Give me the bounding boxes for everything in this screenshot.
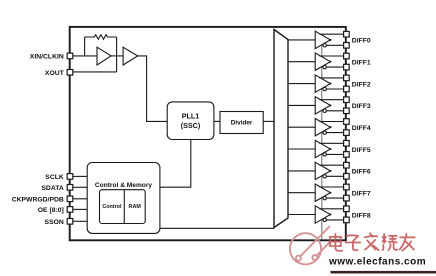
wire mux to buffer 1 [288, 61, 315, 63]
wire DIFF6 complement output [326, 175, 343, 177]
svg-text:DIFF3: DIFF3 [352, 103, 371, 110]
wire Control block to distribution buffer [160, 227, 274, 229]
pin SDATA [67, 185, 73, 191]
junction dot DIFF0 [329, 39, 331, 41]
output buffer U7 DIFF1 [315, 53, 330, 70]
wire SCLK [73, 175, 87, 177]
output buffer U9 DIFF3 [315, 97, 330, 114]
wire CKPWRGD/PDB [73, 198, 87, 200]
wire DIFF7 true output [319, 186, 343, 188]
wire Divider to distribution buffer [263, 120, 274, 122]
wire DIFF0 complement output [326, 44, 343, 46]
junction dot DIFF1 [329, 61, 331, 63]
pin DIFF0 complement [344, 43, 350, 49]
wire mux to buffer 3 [288, 104, 315, 106]
wire mux to buffer 7 [288, 192, 315, 194]
output buffer U11 DIFF5 [315, 140, 330, 157]
junction dot DIFF6 [329, 170, 331, 172]
svg-text:www.elecfans.com: www.elecfans.com [328, 256, 426, 267]
inversion bubble DIFF8 [323, 218, 326, 221]
wire DIFF8 complement output [326, 219, 343, 221]
chip outline [70, 27, 346, 240]
inversion bubble DIFF4 [323, 131, 326, 134]
control/RAM sub-blocks [100, 190, 146, 224]
wire DIFF6 true output [319, 164, 343, 166]
wire mux to buffer 0 [288, 39, 315, 41]
wire OE [8:0] [73, 208, 87, 210]
watermark logo disc [290, 227, 331, 265]
pin DIFF4 complement [344, 130, 350, 136]
pin DIFF1 complement [344, 64, 350, 70]
inversion bubble DIFF6 [323, 175, 326, 178]
svg-text:OE [8:0]: OE [8:0] [38, 207, 64, 214]
inversion bubble DIFF1 [323, 65, 326, 68]
wire SSON [73, 220, 87, 222]
inversion bubble DIFF2 [323, 87, 326, 90]
junction dot DIFF8 [329, 213, 331, 215]
svg-text:DIFF1: DIFF1 [352, 60, 371, 67]
wire SDATA [73, 186, 87, 188]
inversion bubble DIFF3 [323, 109, 326, 112]
wire DIFF5 complement output [326, 153, 343, 155]
svg-text:XIN/CLKIN: XIN/CLKIN [30, 54, 64, 61]
inversion bubble DIFF7 [323, 196, 326, 199]
svg-text:SCLK: SCLK [45, 174, 64, 181]
watermark char 电 [330, 234, 343, 251]
output buffer U6 DIFF0 [315, 31, 330, 48]
junction dot DIFF4 [329, 126, 331, 128]
resistor R1 (crystal feedback) [84, 35, 116, 40]
PLL1 U3 [167, 102, 214, 140]
divider line between Control and RAM [123, 190, 125, 224]
junction dot DIFF2 [329, 83, 331, 85]
wire DIFF5 true output [319, 142, 343, 144]
wire PLL1 to Divider [214, 120, 220, 122]
junction dot DIFF3 [329, 104, 331, 106]
wire osc to PLL1 [138, 56, 168, 122]
wire XOUT [73, 71, 117, 73]
svg-text:DIFF5: DIFF5 [352, 147, 371, 154]
pin DIFF7 true [344, 184, 350, 190]
wire DIFF1 true output [319, 55, 343, 57]
pin DIFF3 complement [344, 108, 350, 114]
pin DIFF2 true [344, 75, 350, 81]
svg-text:Control & Memory: Control & Memory [95, 182, 152, 189]
wire PLL1 to Control block [160, 140, 191, 188]
wire DIFF0 true output [319, 33, 343, 35]
junction dot DIFF7 [329, 192, 331, 194]
pin DIFF5 true [344, 141, 350, 147]
svg-text:SSON: SSON [45, 219, 64, 226]
svg-text:DIFF4: DIFF4 [352, 125, 371, 132]
watermark char 友 [400, 234, 415, 251]
pin DIFF6 true [344, 162, 350, 168]
clock distribution buffer (trapezoid) [274, 30, 288, 228]
wire XIN input [73, 55, 97, 57]
svg-text:DIFF0: DIFF0 [352, 38, 371, 45]
watermark char 烧 [383, 234, 398, 250]
op-amp U2 (buffer) [123, 47, 138, 65]
watermark char 子 [346, 235, 361, 250]
pin DIFF6 complement [344, 174, 350, 180]
svg-text:Control: Control [102, 204, 122, 210]
output buffer U10 DIFF4 [315, 119, 330, 136]
pin DIFF2 complement [344, 86, 350, 92]
wire DIFF8 true output [319, 208, 343, 210]
pin XOUT [67, 70, 73, 76]
junction dot DIFF5 [329, 148, 331, 150]
pin SCLK [67, 174, 73, 180]
output buffer U13 DIFF7 [315, 184, 330, 201]
svg-text:DIFF6: DIFF6 [352, 169, 371, 176]
inversion bubble DIFF0 [323, 44, 326, 47]
svg-text:Divider: Divider [231, 120, 253, 127]
svg-text:SDATA: SDATA [41, 185, 63, 192]
OE enable bus (vertical gray line behind output buffers) [321, 45, 323, 240]
inversion bubble DIFF5 [323, 153, 326, 156]
pin DIFF0 true [344, 31, 350, 37]
svg-text:RAM: RAM [129, 204, 142, 210]
svg-text:DIFF7: DIFF7 [352, 191, 371, 198]
wire mux to buffer 2 [288, 83, 315, 85]
pin OE [8:0] [67, 207, 73, 213]
output buffer U8 DIFF2 [315, 75, 330, 92]
wire DIFF2 true output [319, 77, 343, 79]
control and memory block U5 [87, 163, 160, 234]
wire DIFF7 complement output [326, 197, 343, 199]
svg-text:XOUT: XOUT [45, 70, 65, 77]
watermark bottom bar [331, 271, 436, 274]
pin CKPWRGD/PDB [67, 196, 73, 202]
wire DIFF3 true output [319, 99, 343, 101]
svg-text:(SSC): (SSC) [181, 121, 201, 130]
divider U4 [220, 112, 263, 134]
pin DIFF5 complement [344, 152, 350, 158]
pin DIFF1 true [344, 53, 350, 59]
wire mux to buffer 5 [288, 148, 315, 150]
pin DIFF4 true [344, 119, 350, 125]
pin DIFF8 true [344, 206, 350, 212]
output buffer U12 DIFF6 [315, 162, 330, 179]
svg-text:DIFF8: DIFF8 [352, 212, 371, 219]
wire mux to buffer 8 [288, 214, 315, 216]
wire DIFF2 complement output [326, 88, 343, 90]
wire feedback left vertical [84, 37, 86, 56]
watermark char 发 [365, 233, 379, 250]
output buffer U14 DIFF8 [315, 206, 330, 223]
pin DIFF3 true [344, 97, 350, 103]
wire DIFF3 complement output [326, 110, 343, 112]
pin DIFF8 complement [344, 217, 350, 223]
wire amp1 to amp2 [111, 55, 123, 57]
wire DIFF4 complement output [326, 132, 343, 134]
svg-text:PLL1: PLL1 [182, 112, 200, 121]
wire mux to buffer 6 [288, 170, 315, 172]
pin DIFF7 complement [344, 195, 350, 201]
pin XIN/CLKIN [67, 53, 73, 59]
wire feedback right vertical [116, 37, 118, 72]
wire DIFF4 true output [319, 121, 343, 123]
output buffer rows inserted by template below [288, 31, 371, 223]
svg-text:CKPWRGD/PDB: CKPWRGD/PDB [12, 197, 64, 204]
wire DIFF1 complement output [326, 66, 343, 68]
wire mux to buffer 4 [288, 126, 315, 128]
op-amp U1 (crystal amp) [97, 47, 111, 65]
pin SSON [67, 219, 73, 225]
svg-text:DIFF2: DIFF2 [352, 81, 371, 88]
